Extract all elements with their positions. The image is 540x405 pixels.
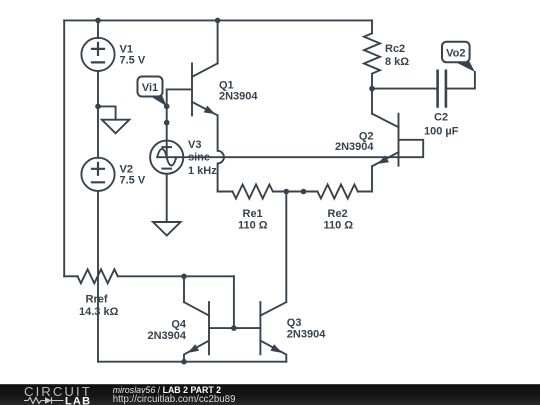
svg-text:LAB: LAB [65,395,91,405]
flag Vi1 [138,77,167,107]
wire V2 bottom drop [97,191,99,362]
wire Vi1 vertical to V3 [166,89,168,157]
svg-text:Q4: Q4 [171,319,187,331]
node dot Re junction right [301,189,307,195]
svg-text:110 Ω: 110 Ω [324,220,354,232]
V1 plus minus [92,43,104,63]
logo diode triangle [45,397,52,404]
svg-text:Rref: Rref [86,294,108,306]
node dot top Q1 collector [215,18,221,24]
wire Q1 collector riser [217,20,219,63]
node dot Rc2 output [369,86,375,92]
svg-text:110 Ω: 110 Ω [238,220,268,232]
source V2 circle [81,158,114,191]
node dot bottom rail [181,359,187,365]
transistor Q2 bar [398,114,400,166]
svg-text:8 kΩ: 8 kΩ [385,56,409,68]
wire Re1 left lead [218,191,233,193]
source V3 circle [150,141,183,174]
transistor Q1 bar [191,63,193,115]
svg-text:2N3904: 2N3904 [287,328,326,340]
source V1 circle [81,38,114,71]
Q4 emitter arrow [188,344,200,353]
Q3 emitter arrow [270,344,282,353]
wire Q2 collector riser [371,89,373,114]
svg-text:http://circuitlab.com/cc2bu89: http://circuitlab.com/cc2bu89 [113,394,236,405]
transistor Q3 bar [259,302,261,354]
svg-text:Vo2: Vo2 [446,48,465,60]
resistor Re2 110 [318,185,358,199]
transistor Q4 emitter [184,341,209,362]
node dot Re junction [284,189,290,195]
transistor Q2 emitter [372,152,399,166]
transistor Q1 emitter [192,102,218,116]
svg-text:Rc2: Rc2 [385,43,405,55]
svg-text:sine: sine [188,152,210,164]
wire Re2 right to Q2 emitter [358,166,372,191]
wire Rref left lead [64,275,77,277]
svg-text:Q3: Q3 [287,317,302,329]
wire Re junction riser to Q3 [285,192,287,303]
flag Vo2 [442,42,475,72]
resistor Rref 14.3k [78,269,118,283]
svg-text:100 µF: 100 µF [424,126,459,138]
wire Rc2 bottom lead [371,74,373,88]
svg-text:1 kHz: 1 kHz [188,165,217,177]
transistor Q3 collector [260,302,286,316]
V3 sine wave [157,149,176,166]
node dot Rref-Q4 [181,274,187,280]
node dot ground branch [95,104,101,110]
capacitor C2 plates [438,71,446,107]
node dot top V1 [95,18,101,24]
resistor Re1 110 [233,185,273,199]
svg-text:Re2: Re2 [328,208,348,220]
V2 plus minus [92,163,104,183]
transistor Q1 collector [192,63,218,77]
wire V3 bottom to ground2 [166,174,168,222]
wire C2 left [372,88,436,90]
node dot mirror bases [231,325,237,331]
transistor Q2 collector [372,114,399,128]
wire left rail [63,20,65,276]
wire Q1 base [167,88,192,90]
svg-text:Re1: Re1 [243,208,263,220]
svg-text:14.3 kΩ: 14.3 kΩ [79,306,119,318]
node dot Vi1 lower [164,120,170,126]
wire Rc2 top lead [371,20,373,33]
wire Q1 emitter drop with hop [218,115,233,191]
svg-text:2N3904: 2N3904 [219,91,258,103]
ground symbol 2 [153,222,181,236]
transistor Q3 emitter [260,341,286,362]
svg-text:7.5 V: 7.5 V [120,55,146,67]
svg-text:2N3904: 2N3904 [335,141,374,153]
wire top rail [64,19,372,21]
wire Q4 collector riser [183,276,185,302]
transistor Q4 collector [184,302,209,316]
svg-text:2N3904: 2N3904 [147,330,186,342]
wire mirror base riser [233,276,235,328]
ground symbol 1 [102,120,129,134]
V3 plus dash [162,146,171,148]
transistor Q4 bar [208,302,210,354]
Q2 emitter arrow [377,155,389,164]
footer bar [0,384,540,405]
wire Rref to mirror [118,275,234,277]
resistor Rc2 8k vertical [364,33,380,73]
wire Re1-Re2 middle link [273,191,318,193]
logo resistor-diode glyph [24,397,64,403]
wire Q4-Q3 base link [209,327,260,329]
wire V1 top lead [97,20,99,38]
svg-text:V3: V3 [188,139,201,151]
svg-text:7.5 V: 7.5 V [120,175,146,187]
wire ground1 branch [98,106,116,119]
wire V3 to Q2 base run [157,140,423,157]
svg-text:C2: C2 [434,112,448,124]
node dot Vi1 attach [164,104,170,110]
wire bottom rail [98,361,286,363]
wire V1-V2 link [97,71,99,158]
svg-text:Vi1: Vi1 [142,82,158,94]
Q1 emitter arrow [204,106,216,115]
V3 minus dash [162,168,171,170]
wire C2 right to Vo2 [447,72,475,89]
